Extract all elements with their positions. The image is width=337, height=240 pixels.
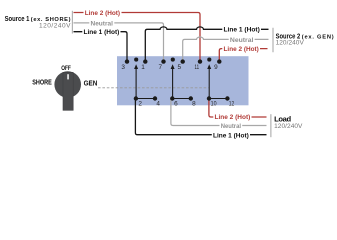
svg-text:Neutral: Neutral bbox=[221, 123, 241, 130]
svg-text:1: 1 bbox=[141, 64, 145, 71]
svg-text:2: 2 bbox=[138, 101, 142, 108]
svg-text:Source 1: Source 1 bbox=[5, 14, 30, 23]
svg-text:9: 9 bbox=[214, 64, 218, 71]
svg-text:GEN: GEN bbox=[84, 78, 98, 87]
svg-text:120/240V: 120/240V bbox=[39, 22, 71, 29]
svg-text:12: 12 bbox=[229, 101, 235, 108]
svg-text:SHORE: SHORE bbox=[32, 77, 52, 86]
svg-text:7: 7 bbox=[159, 64, 163, 71]
svg-text:(ex. GEN): (ex. GEN) bbox=[302, 34, 334, 40]
svg-text:120/240V: 120/240V bbox=[274, 123, 303, 130]
svg-text:8: 8 bbox=[192, 101, 196, 108]
svg-text:3: 3 bbox=[121, 64, 125, 71]
svg-text:10: 10 bbox=[211, 101, 217, 108]
svg-text:6: 6 bbox=[174, 101, 178, 108]
svg-text:11: 11 bbox=[195, 64, 200, 71]
svg-text:Line 1 (Hot): Line 1 (Hot) bbox=[213, 132, 249, 139]
svg-text:4: 4 bbox=[156, 101, 160, 108]
svg-text:Line 2 (Hot): Line 2 (Hot) bbox=[215, 114, 251, 121]
svg-text:Line 2 (Hot): Line 2 (Hot) bbox=[85, 10, 120, 17]
svg-text:120/240V: 120/240V bbox=[276, 39, 305, 46]
svg-text:Neutral: Neutral bbox=[230, 37, 254, 44]
svg-text:Line 1 (Hot): Line 1 (Hot) bbox=[224, 26, 260, 33]
svg-text:Neutral: Neutral bbox=[91, 20, 114, 27]
svg-text:5: 5 bbox=[178, 64, 182, 71]
svg-text:Line 1 (Hot): Line 1 (Hot) bbox=[84, 29, 120, 36]
svg-text:Line 2 (Hot): Line 2 (Hot) bbox=[224, 46, 259, 53]
svg-text:OFF: OFF bbox=[61, 65, 71, 72]
